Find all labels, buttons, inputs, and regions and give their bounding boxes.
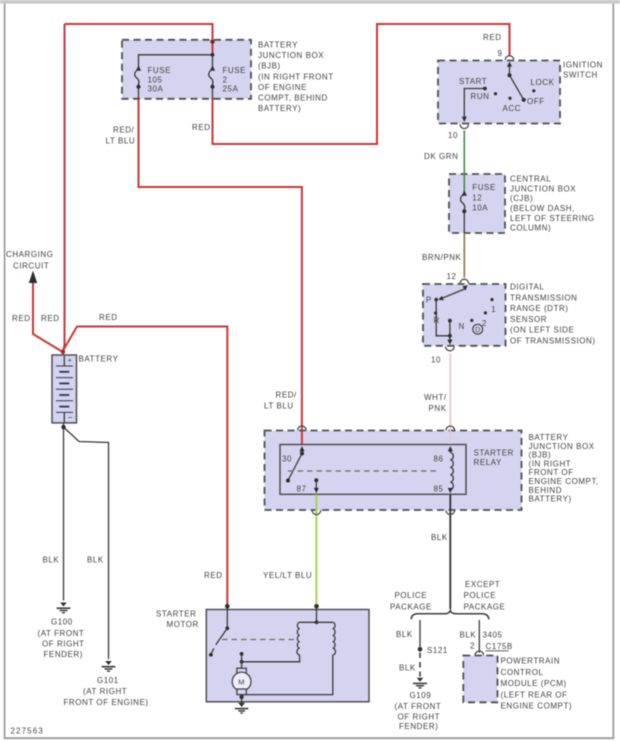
- svg-text:BATTERY): BATTERY): [258, 104, 301, 113]
- svg-text:G100: G100: [51, 618, 73, 627]
- svg-text:R: R: [434, 316, 440, 325]
- svg-text:9: 9: [498, 49, 503, 58]
- svg-text:IGNITION: IGNITION: [563, 61, 603, 70]
- svg-text:RUN: RUN: [471, 92, 490, 101]
- svg-text:FUSE: FUSE: [472, 183, 496, 192]
- svg-text:M: M: [238, 678, 245, 687]
- svg-text:(AT FRONT: (AT FRONT: [38, 629, 85, 638]
- svg-text:CIRCUIT: CIRCUIT: [13, 262, 49, 271]
- svg-text:2: 2: [223, 75, 228, 84]
- svg-text:G109: G109: [410, 691, 432, 700]
- svg-text:ENGINE COMPT,: ENGINE COMPT,: [529, 477, 599, 486]
- svg-text:LT BLU: LT BLU: [264, 402, 294, 411]
- svg-text:BLK: BLK: [399, 664, 416, 673]
- svg-text:JUNCTION BOX: JUNCTION BOX: [510, 184, 576, 193]
- svg-text:BATTERY): BATTERY): [529, 495, 572, 504]
- svg-text:FUSE: FUSE: [148, 66, 172, 75]
- svg-text:BRN/PNK: BRN/PNK: [422, 253, 462, 262]
- svg-text:G101: G101: [97, 676, 119, 685]
- svg-text:COLUMN): COLUMN): [510, 224, 551, 233]
- svg-text:CENTRAL: CENTRAL: [510, 175, 551, 184]
- svg-text:BATTERY: BATTERY: [258, 41, 298, 50]
- svg-text:(IN RIGHT FRONT: (IN RIGHT FRONT: [258, 72, 334, 81]
- svg-text:RELAY: RELAY: [474, 458, 503, 467]
- svg-text:BEHIND: BEHIND: [529, 486, 563, 495]
- svg-text:12: 12: [472, 194, 482, 203]
- svg-text:MOTOR: MOTOR: [167, 620, 199, 629]
- svg-text:BLK: BLK: [43, 556, 60, 565]
- svg-text:N: N: [459, 322, 465, 331]
- svg-text:RED/: RED/: [276, 391, 298, 400]
- svg-text:BLK: BLK: [460, 631, 477, 640]
- svg-text:COMPT, BEHIND: COMPT, BEHIND: [258, 94, 328, 103]
- svg-text:BATTERY: BATTERY: [529, 433, 569, 442]
- svg-text:POWERTRAIN: POWERTRAIN: [501, 657, 561, 666]
- svg-text:SWITCH: SWITCH: [563, 70, 598, 79]
- svg-text:(ON LEFT SIDE: (ON LEFT SIDE: [510, 326, 574, 335]
- svg-text:MODULE (PCM): MODULE (PCM): [501, 679, 567, 688]
- svg-text:FENDER): FENDER): [44, 650, 83, 659]
- svg-text:STARTER: STARTER: [156, 610, 196, 619]
- svg-text:BATTERY: BATTERY: [79, 355, 119, 364]
- svg-text:SENSOR: SENSOR: [510, 315, 547, 324]
- svg-text:30: 30: [282, 455, 292, 464]
- svg-text:RED: RED: [41, 314, 60, 323]
- svg-text:YEL/LT BLU: YEL/LT BLU: [263, 571, 312, 580]
- svg-text:FUSE: FUSE: [223, 66, 247, 75]
- svg-text:JUNCTION BOX: JUNCTION BOX: [529, 442, 595, 451]
- svg-text:−: −: [68, 413, 74, 423]
- svg-text:FRONT OF ENGINE): FRONT OF ENGINE): [64, 698, 149, 707]
- svg-text:LOCK: LOCK: [531, 78, 555, 87]
- svg-text:PNK: PNK: [429, 404, 447, 413]
- svg-text:2: 2: [470, 642, 475, 651]
- svg-text:86: 86: [434, 455, 444, 464]
- svg-text:OF RIGHT: OF RIGHT: [398, 712, 441, 721]
- svg-text:LT BLU: LT BLU: [106, 137, 136, 146]
- svg-text:(IN RIGHT: (IN RIGHT: [529, 459, 572, 468]
- svg-text:(AT RIGHT: (AT RIGHT: [83, 687, 127, 696]
- svg-text:BLK: BLK: [396, 630, 413, 639]
- svg-text:RANGE (DTR): RANGE (DTR): [510, 304, 569, 313]
- svg-text:WHT/: WHT/: [424, 393, 447, 402]
- svg-text:RED/: RED/: [113, 126, 135, 135]
- svg-text:RED: RED: [483, 33, 502, 42]
- svg-text:P: P: [426, 295, 432, 304]
- svg-text:C175B: C175B: [486, 642, 513, 651]
- svg-text:FENDER): FENDER): [399, 722, 438, 731]
- svg-text:10: 10: [448, 131, 458, 140]
- svg-text:105: 105: [148, 75, 163, 84]
- svg-text:BLK: BLK: [431, 533, 448, 542]
- svg-text:RED: RED: [204, 571, 223, 580]
- svg-text:87: 87: [297, 485, 307, 494]
- svg-text:RED: RED: [12, 314, 31, 323]
- svg-text:(BJB): (BJB): [529, 451, 552, 460]
- svg-text:DK GRN: DK GRN: [424, 152, 458, 161]
- svg-text:JUNCTION BOX: JUNCTION BOX: [258, 51, 324, 60]
- svg-text:227563: 227563: [11, 727, 44, 736]
- svg-text:START: START: [459, 77, 487, 86]
- svg-text:POLICE: POLICE: [395, 591, 428, 600]
- svg-text:25A: 25A: [223, 85, 239, 94]
- svg-text:D: D: [475, 327, 481, 334]
- svg-text:CONTROL: CONTROL: [501, 668, 544, 677]
- svg-text:OF ENGINE: OF ENGINE: [258, 83, 307, 92]
- svg-text:DIGITAL: DIGITAL: [510, 283, 544, 292]
- svg-text:(AT FRONT: (AT FRONT: [395, 702, 442, 711]
- svg-text:10A: 10A: [472, 204, 488, 213]
- svg-text:ENGINE COMPT): ENGINE COMPT): [501, 702, 573, 711]
- svg-text:+: +: [68, 356, 73, 365]
- svg-text:3405: 3405: [483, 631, 503, 640]
- svg-text:1: 1: [491, 305, 496, 314]
- svg-text:12: 12: [447, 272, 457, 281]
- svg-text:10: 10: [431, 356, 441, 365]
- svg-text:OFF: OFF: [527, 97, 545, 106]
- svg-text:2: 2: [482, 319, 487, 328]
- svg-text:(BJB): (BJB): [258, 62, 281, 71]
- svg-text:(BELOW DASH,: (BELOW DASH,: [510, 204, 575, 213]
- svg-text:(LEFT REAR OF: (LEFT REAR OF: [501, 690, 568, 699]
- svg-text:ACC: ACC: [503, 104, 522, 113]
- svg-text:EXCEPT: EXCEPT: [465, 580, 500, 589]
- svg-text:STARTER: STARTER: [474, 448, 514, 457]
- svg-text:FRONT OF: FRONT OF: [529, 468, 574, 477]
- svg-text:OF RIGHT: OF RIGHT: [42, 640, 85, 649]
- svg-text:30A: 30A: [148, 85, 164, 94]
- svg-text:OF TRANSMISSION): OF TRANSMISSION): [510, 337, 596, 346]
- svg-text:LEFT OF STEERING: LEFT OF STEERING: [510, 214, 595, 223]
- svg-text:PACKAGE: PACKAGE: [390, 603, 432, 612]
- svg-text:S121: S121: [427, 646, 448, 655]
- svg-text:85: 85: [434, 485, 444, 494]
- svg-text:PACKAGE: PACKAGE: [464, 603, 506, 612]
- svg-text:TRANSMISSION: TRANSMISSION: [510, 293, 578, 302]
- svg-text:CHARGING: CHARGING: [6, 250, 54, 259]
- svg-text:RED: RED: [192, 123, 211, 132]
- svg-text:BLK: BLK: [87, 556, 104, 565]
- svg-text:(CJB): (CJB): [510, 194, 533, 203]
- svg-text:POLICE: POLICE: [464, 591, 497, 600]
- svg-text:RED: RED: [99, 313, 118, 322]
